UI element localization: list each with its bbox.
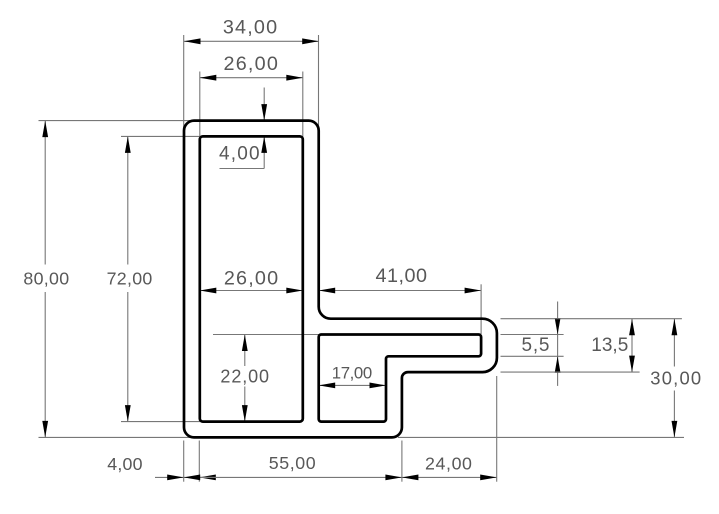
svg-text:80,00: 80,00 <box>23 269 69 289</box>
svg-text:41,00: 41,00 <box>375 265 427 287</box>
svg-text:24,00: 24,00 <box>425 454 473 474</box>
svg-text:5,5: 5,5 <box>521 335 550 356</box>
svg-text:22,00: 22,00 <box>220 367 270 387</box>
svg-text:72,00: 72,00 <box>107 269 153 289</box>
svg-text:4,00: 4,00 <box>107 454 142 474</box>
svg-text:55,00: 55,00 <box>269 453 317 473</box>
svg-text:26,00: 26,00 <box>224 53 280 75</box>
svg-text:13,5: 13,5 <box>591 335 628 356</box>
svg-text:4,00: 4,00 <box>219 144 261 165</box>
svg-text:30,00: 30,00 <box>650 368 702 389</box>
svg-text:26,00: 26,00 <box>224 268 280 290</box>
svg-text:17,00: 17,00 <box>332 363 372 382</box>
svg-text:34,00: 34,00 <box>223 16 279 38</box>
